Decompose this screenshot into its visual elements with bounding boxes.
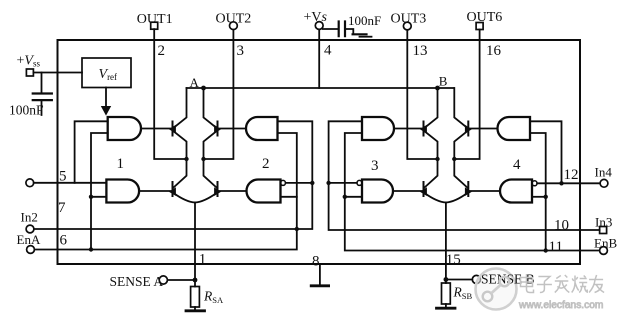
transistor Q1 [172,122,174,136]
node sense B junction [444,277,449,282]
svg-text:OUT3: OUT3 [391,12,427,27]
wire In4 vertical to gate 4 upper input [530,121,562,183]
terminal OUT1 (square, pin 2) [151,22,158,29]
svg-text:OUT6: OUT6 [467,10,503,25]
svg-text:In2: In2 [21,210,38,225]
watermark text dian (电) [521,274,534,293]
svg-text:2: 2 [262,156,270,172]
wire gate1 upper output to Q1 base [141,128,172,130]
wire gate4 upper output to Q6 base [468,128,497,130]
svg-text:4: 4 [513,157,521,173]
ground pin 8 [319,264,321,285]
wire SENSE A to sense node [167,279,195,281]
svg-text:A: A [190,75,200,90]
wire OUT1 to output node [154,29,186,159]
watermark text fa (发) [555,275,570,293]
capacitor 100nF at +Vss [41,73,43,116]
svg-text:13: 13 [413,43,428,59]
AND gate 1 lower [106,180,139,203]
wire gate4 lower output to Q8 base [468,190,500,192]
AND gate 2 upper [246,117,278,140]
wire In1 (pin5) to gate 1 lower AND input [34,182,107,184]
wire sense B vertical to pin 15 [445,203,447,280]
svg-text:Vref: Vref [99,67,118,82]
capacitor 100nF at +Vs [323,29,353,34]
wire gate2 upper output to Q2 base [218,128,247,130]
svg-text:6: 6 [60,233,68,249]
svg-text:B: B [439,74,448,89]
inverter bubble gate 3 [357,180,362,185]
node EnB-gate4 lower junction [544,195,548,199]
watermark text zi (子) [537,277,552,293]
wire gate2 lower inverted input [281,196,297,198]
wire +Vs down to A-B supply rail [318,29,320,88]
svg-text:1: 1 [117,156,125,172]
node EnA line junction [89,247,93,251]
node EnA-gate1 lower junction [89,195,93,199]
watermark elecfans logo [476,269,517,310]
terminal In2 (circle, pin 7) [26,225,34,233]
terminal EnB (circle, pin 11) [600,247,608,255]
wire OUT2 to output node [204,30,234,159]
wire SENSE B to terminal [446,279,472,281]
IC outer box [58,40,581,264]
AND gate 3 upper [362,117,394,140]
svg-text:12: 12 [564,167,579,183]
wire gate3 inverted input from In3 vertical [329,182,357,184]
wire In2 branch to gate 2 inverted input [286,182,313,184]
svg-text:RSB: RSB [453,285,473,302]
wire gate3 lower output to Q7 base [393,190,423,192]
svg-text:3: 3 [371,158,379,174]
wire EnA vertical to gate 1 inputs [91,133,108,250]
svg-text:SENSE A: SENSE A [110,274,164,289]
wire +Vss to Vref [33,72,82,74]
node In2 line crossing EnA vertical [295,227,299,231]
node In2-gate2 junction [310,181,314,185]
wire gate1 lower output to Q3 base [139,190,171,192]
svg-text:1: 1 [199,252,207,268]
wire gate2 lower output to Q4 base [218,190,247,192]
AND gate 4 upper [498,117,530,140]
AND gate 2 lower [247,180,281,203]
node OUT2 junction [201,157,205,161]
wire In2 line to gate 2 vertical [34,121,312,229]
terminal In1 (circle, pin 5) [26,179,34,187]
terminal SENSE B (circle, pin 15) [472,275,480,283]
svg-text:3: 3 [237,43,245,59]
AND gate 3 lower [362,180,393,203]
svg-text:OUT2: OUT2 [216,12,252,27]
terminal In4 (circle, pin 12) [600,179,608,187]
terminal SENSE A (circle, pin 1) [159,276,167,284]
terminal EnA (circle, pin 6) [27,246,35,254]
ground RSA [186,309,205,312]
watermark text you (友) [589,275,604,293]
terminal +Vs (circle, pin 4) [315,22,323,30]
AND gate 1 upper [108,117,141,140]
wire OUT6 to output node [454,30,479,160]
wire sense A vertical to pin 1 [194,203,196,281]
node A [201,86,206,91]
wire EnB branch to gate 4 lower input [530,133,546,251]
ground RSB [437,307,456,310]
svg-text:EnB: EnB [594,235,617,250]
terminal OUT2 (circle, pin 3) [230,22,238,30]
inverter bubble gate 2 [281,180,286,185]
wire gate4 lower inverted input feed [532,196,545,198]
AND gate 4 lower [500,180,532,203]
node In3-gate3 bubble junction [326,181,330,185]
svg-text:EnA: EnA [17,232,41,247]
svg-text:In3: In3 [595,214,612,229]
transistor Q2 [217,122,219,136]
svg-text:+Vs: +Vs [304,10,328,25]
wire In4 line from gate 4 bubble to terminal [537,182,600,184]
svg-text:10: 10 [554,218,569,234]
resistor RSB [445,280,447,308]
terminal OUT6 (square, pin 16) [476,23,483,30]
transistor Q7 [423,182,425,196]
transistor Q6 [467,122,469,136]
svg-text:www.elecfans.com: www.elecfans.com [518,300,603,311]
transistor Q3 [172,182,174,196]
svg-text:4: 4 [324,43,332,59]
resistor RSA [194,280,196,310]
wire In3 line and vertical to gate 3 upper input [329,121,600,230]
supply rail A-B [187,87,454,89]
block Vref [82,58,131,88]
terminal +Vss (square) [26,69,33,76]
svg-text:7: 7 [58,200,66,216]
node sense A junction [193,278,198,283]
node OUT1 junction [184,157,188,161]
inverter bubble gate 4 [532,181,537,186]
svg-text:8: 8 [312,254,320,270]
wire gate3 lower inverted input feed [345,196,362,198]
svg-text:In4: In4 [595,165,613,180]
terminal OUT3 (circle, pin 13) [403,22,411,30]
transistor Q5 [423,122,425,136]
svg-text:15: 15 [446,252,461,268]
wire gate3 upper output to Q5 base [394,128,423,130]
node B [435,86,440,91]
svg-text:100nF: 100nF [9,103,44,118]
transistor Q8 [467,182,469,196]
node EnB line junction [544,248,548,252]
wire EnB line and vertical to gate 3 lower input [345,133,600,251]
wire gate1 inverted input from EnA vertical [91,196,106,198]
node OUT6 junction [452,157,456,161]
svg-text:100nF: 100nF [348,13,381,28]
wire EnA line up to gate 2 lower input [34,133,296,250]
node OUT3 junction [435,157,439,161]
svg-text:2: 2 [158,43,166,59]
transistor Q4 [217,182,219,196]
svg-text:OUT1: OUT1 [137,12,173,27]
wire In1 branch up to gate 1 upper AND input [75,121,108,183]
node In4 junction [559,181,563,185]
svg-text:RSA: RSA [203,289,224,306]
svg-text:11: 11 [549,239,563,255]
watermark text shao (烧) [572,276,588,293]
arrow Vref to gate 1 [105,88,107,107]
svg-text:16: 16 [486,43,502,59]
svg-text:+Vss: +Vss [17,54,41,69]
wire OUT3 to output node [407,30,437,159]
terminal In3 (square, pin 10) [600,227,607,234]
svg-text:5: 5 [59,169,67,185]
node EnB-gate3 lower junction [343,195,347,199]
